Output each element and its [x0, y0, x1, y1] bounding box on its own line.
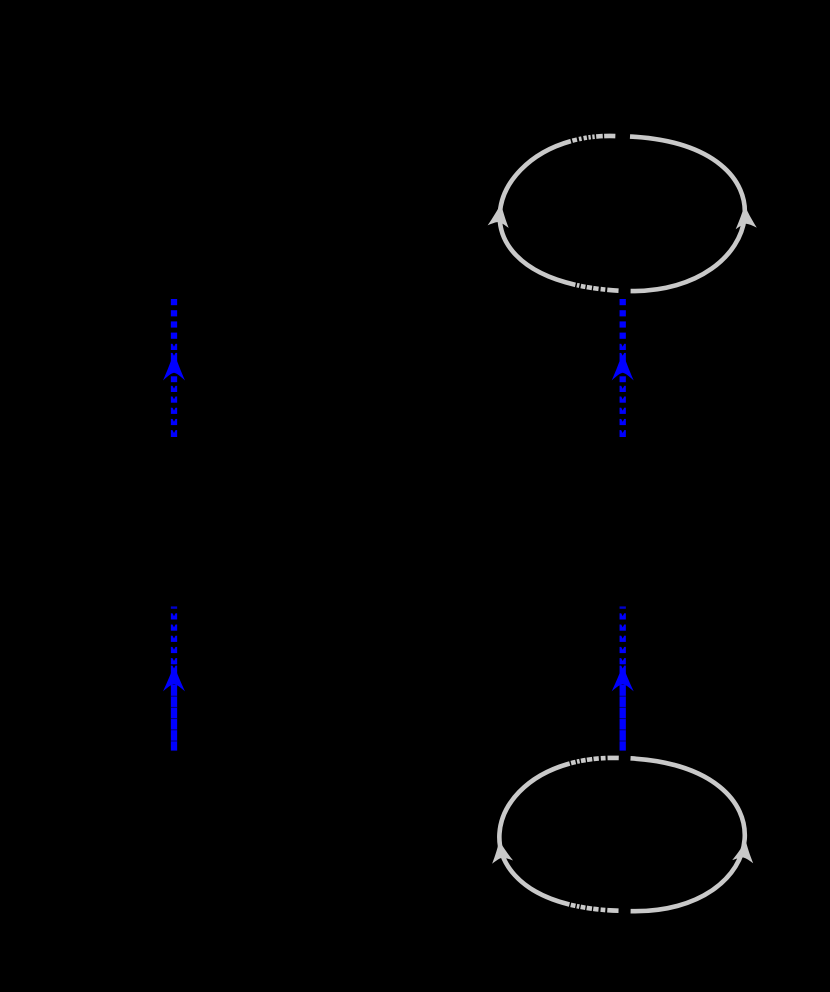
bottom oval right arc — [620, 758, 744, 911]
bottom oval left arc — [499, 758, 619, 911]
top ellipse right arrowhead — [734, 204, 757, 229]
blue dashed arrow upper-right — [612, 299, 634, 437]
bottom ellipse right arrowhead — [732, 839, 756, 863]
notch marks on upper-right arrow dashes — [621, 343, 624, 433]
blue dashed arrow lower-right — [612, 606, 634, 750]
seams on lower-left solid segment — [171, 696, 177, 742]
notch marks on lower-left arrow dashes — [172, 613, 175, 669]
top ellipse left arrowhead — [488, 202, 512, 228]
notch marks on upper-left arrow dashes — [172, 343, 175, 433]
blue dashed arrow upper-left — [163, 299, 185, 437]
top oval left arc — [500, 136, 621, 291]
seams on lower-right solid segment — [620, 696, 626, 742]
top circle-arrow (gray oval, two curved arrows with text-gap dashes) — [500, 136, 745, 291]
bottom circle-arrow (gray oval, two curved arrows with text-gap dashes) — [499, 758, 744, 911]
notch marks on lower-right arrow dashes — [621, 613, 624, 669]
top oval right arc — [621, 136, 745, 291]
blue dashed arrow lower-left — [163, 606, 185, 750]
bottom ellipse left arrowhead — [489, 839, 513, 864]
